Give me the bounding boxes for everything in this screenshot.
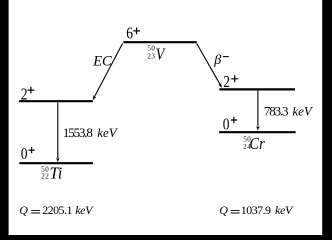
svg-text:V: V: [156, 45, 166, 63]
svg-text:22: 22: [41, 172, 49, 180]
svg-text:1037.9: 1037.9: [241, 203, 271, 217]
svg-text:0: 0: [21, 146, 28, 163]
svg-text:Q: Q: [219, 203, 228, 217]
svg-text:2: 2: [21, 87, 28, 104]
svg-text:EC: EC: [92, 54, 112, 70]
svg-text:keV: keV: [75, 203, 94, 217]
svg-text:β: β: [213, 53, 221, 68]
svg-text:50: 50: [147, 45, 155, 53]
svg-text:2: 2: [223, 74, 230, 91]
svg-text:keV: keV: [275, 203, 294, 217]
svg-text:23: 23: [147, 53, 155, 61]
svg-text:Cr: Cr: [249, 135, 265, 153]
svg-text:keV: keV: [97, 125, 119, 140]
svg-text:783.3: 783.3: [264, 104, 288, 119]
svg-text:keV: keV: [292, 104, 314, 119]
svg-text:0: 0: [223, 116, 230, 133]
svg-text:2205.1: 2205.1: [42, 203, 72, 217]
svg-text:6: 6: [126, 26, 133, 43]
svg-text:Q: Q: [19, 203, 28, 217]
svg-text:Ti: Ti: [50, 164, 63, 183]
svg-text:1553.8: 1553.8: [63, 125, 93, 140]
